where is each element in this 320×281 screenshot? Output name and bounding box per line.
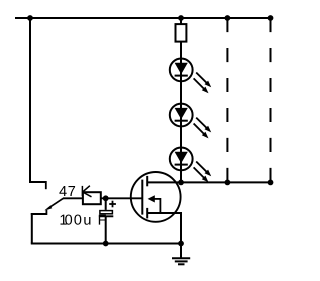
wire pot to gate (101, 197, 143, 199)
wire switch lever to pot (63, 197, 83, 199)
resistor 47K body (83, 192, 101, 204)
ground (172, 244, 190, 265)
resistor R1 (176, 24, 187, 41)
wire dashed parallel string 2 (270, 18, 272, 182)
node ground junction (178, 241, 184, 247)
wire LED bottom / drain horizontal (147, 181, 270, 183)
wire source to bottom rail (180, 212, 182, 244)
LED D3 (170, 148, 211, 183)
wire switch bottom to bottom rail (31, 213, 33, 244)
potentiometer wiper K mark (82, 186, 91, 197)
wire LED string vertical (180, 17, 182, 183)
node drain junction (178, 180, 184, 186)
LED D2 (170, 104, 211, 139)
wire top rail (15, 17, 271, 19)
capacitor plus sign (109, 201, 116, 208)
node dashed string 2 bottom junction (268, 180, 274, 186)
node LED string top junction (178, 15, 184, 21)
MOSFET Q1 (131, 172, 181, 222)
wire dashed parallel string 1 (226, 18, 228, 182)
capacitor C1 100uF (99, 198, 113, 243)
LED D1 (170, 59, 211, 94)
label 47K value (59, 186, 66, 196)
wire left vertical from top rail to switch (29, 17, 31, 182)
wire bottom rail (31, 243, 181, 245)
node dashed string 1 top junction (225, 15, 231, 21)
node gate/cap junction (103, 195, 109, 201)
label 100uF value (61, 215, 67, 225)
node capacitor bottom junction (103, 241, 109, 247)
node dashed string 1 bottom junction (225, 180, 231, 186)
switch SW1 (29, 181, 63, 215)
node dashed string 2 top junction (268, 15, 274, 21)
node top-left junction (27, 15, 33, 21)
